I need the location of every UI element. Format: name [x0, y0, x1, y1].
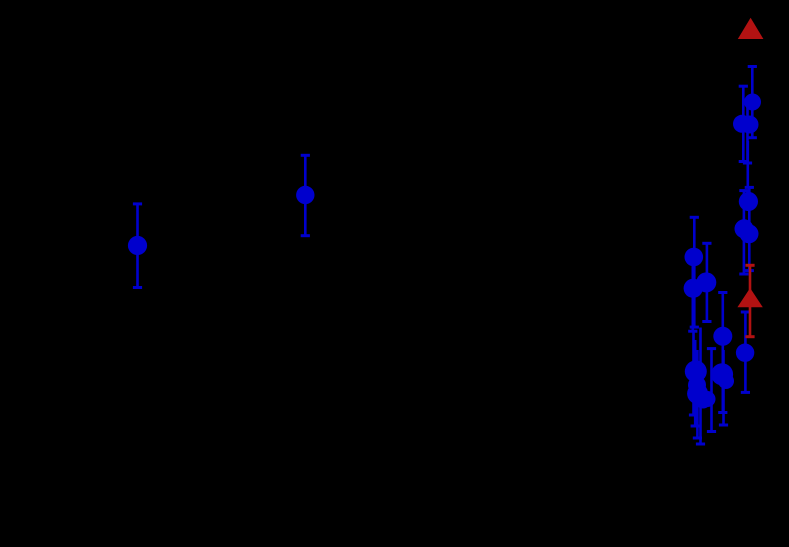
marker B7	[684, 279, 703, 298]
error bar B11	[741, 312, 750, 392]
red error bar T2	[745, 265, 754, 336]
marker B14	[688, 376, 706, 394]
error bar B14	[691, 340, 700, 426]
marker B1	[744, 94, 761, 111]
marker B3	[741, 116, 759, 134]
error bar B2	[739, 86, 748, 161]
error bar B9	[718, 293, 727, 413]
marker B11	[736, 344, 754, 362]
error bar B4	[745, 187, 754, 270]
error bar B16	[696, 328, 705, 445]
upper limit triangle T1	[738, 18, 764, 39]
marker B12	[700, 391, 716, 407]
error bar B3b connector	[746, 141, 749, 187]
error bar B13	[689, 331, 698, 415]
error bar B1	[748, 67, 757, 138]
upper limit triangle T2	[737, 288, 762, 307]
marker B9	[713, 327, 732, 346]
error bar B8	[702, 243, 711, 321]
error bar B12	[707, 349, 716, 432]
error bar P2	[301, 155, 310, 235]
marker B5	[735, 219, 754, 238]
marker B2	[733, 115, 751, 133]
marker P1	[128, 236, 147, 255]
error bar B3	[743, 100, 752, 163]
error bar B7	[688, 255, 697, 331]
marker B16	[695, 392, 712, 409]
marker B8	[696, 272, 716, 292]
error bar B10	[719, 350, 728, 425]
error bar B5	[739, 191, 748, 274]
error bar B15	[693, 350, 702, 438]
marker B10	[711, 363, 733, 385]
marker B15	[687, 383, 708, 404]
marker B6	[685, 248, 704, 267]
marker P2	[296, 186, 314, 204]
marker B10b	[718, 373, 734, 389]
error bar B6	[690, 217, 699, 327]
marker B5b	[740, 224, 759, 243]
error bar P1	[133, 204, 142, 288]
marker B13	[685, 360, 707, 382]
marker B4	[739, 192, 758, 211]
